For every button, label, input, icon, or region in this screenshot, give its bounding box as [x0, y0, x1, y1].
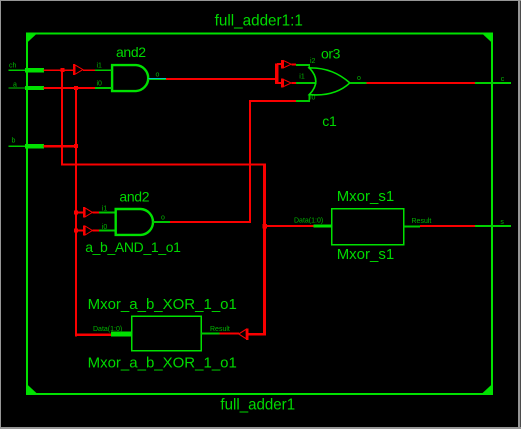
Mxor_s1 Result stub — [404, 226, 421, 228]
junction and2b i1 tap — [74, 210, 78, 214]
svg-text:Data(1:0): Data(1:0) — [93, 326, 122, 333]
and2 gate a_b_AND_1_o1 — [116, 209, 153, 235]
wire vertical from ch down — [61, 69, 63, 165]
svg-text:Mxor_a_b_XOR_1_o1: Mxor_a_b_XOR_1_o1 — [88, 296, 237, 313]
svg-text:i1: i1 — [97, 62, 103, 69]
svg-text:a_b_AND_1_o1: a_b_AND_1_o1 — [85, 239, 181, 255]
svg-text:Result: Result — [210, 326, 230, 333]
border corner TL — [27, 33, 38, 43]
border corner TR — [482, 33, 493, 43]
input pin ch — [9, 68, 45, 72]
svg-text:o: o — [156, 72, 160, 79]
XOR Result stub — [201, 333, 220, 335]
or3 output stub — [350, 82, 367, 84]
wire buffer outs to or3 red — [291, 63, 296, 84]
and2b input wires green — [99, 211, 116, 231]
wire horizontal y335 to XOR Data — [75, 334, 112, 336]
and2 U1 input wires green — [95, 69, 112, 89]
svg-text:Data(1:0): Data(1:0) — [294, 218, 323, 225]
svg-text:o: o — [161, 214, 165, 221]
wire vertical split to or3 i2 i1 — [275, 63, 281, 84]
buffer XOR result (left pointing) — [239, 329, 249, 340]
svg-text:Mxor_s1: Mxor_s1 — [337, 188, 395, 205]
svg-text:i0: i0 — [102, 224, 108, 231]
wire or3 out to pin c — [367, 82, 476, 84]
junction and2b i0 tap — [74, 229, 78, 233]
wire horizontal y164 to Mxor_s1 bus — [61, 164, 266, 166]
Mxor_s1 Data stub — [313, 224, 331, 227]
svg-text:full_adder1:1: full_adder1:1 — [215, 12, 303, 29]
border corner BL — [27, 384, 38, 394]
wire and2 U1 out to or3 — [166, 78, 278, 80]
svg-text:Mxor_a_b_XOR_1_o1: Mxor_a_b_XOR_1_o1 — [88, 355, 237, 372]
wire a stub to and2 — [44, 87, 96, 89]
input pin a — [9, 86, 45, 90]
input pin b — [9, 144, 45, 148]
buffer and2b i1 — [77, 207, 92, 217]
junction a x76 — [74, 86, 78, 90]
svg-text:b: b — [12, 138, 16, 145]
and2 gate U1 — [112, 65, 148, 91]
wire Mxor_s1 Result to pin s — [420, 225, 475, 227]
svg-text:full_adder1: full_adder1 — [220, 396, 295, 413]
Mxor_s1 box — [332, 209, 404, 245]
svg-text:i2: i2 — [310, 58, 316, 65]
svg-text:i1: i1 — [299, 74, 305, 81]
wire buffer to s bus corner — [248, 333, 265, 336]
or3 gate c1 — [309, 68, 350, 95]
wire vertical s bus x264 — [263, 164, 266, 336]
and2 U1 output stub cyan/green — [149, 78, 166, 80]
Mxor_a_b_XOR box — [132, 316, 202, 350]
XOR Data stub — [111, 332, 132, 337]
svg-text:and2: and2 — [119, 188, 149, 204]
wire buffer outs to and2b red — [92, 211, 99, 231]
svg-text:c1: c1 — [322, 113, 337, 129]
bottom label full_adder1 — [220, 396, 295, 413]
svg-text:and2: and2 — [116, 44, 146, 60]
buffer or3 i1 — [281, 79, 291, 88]
wire b stub to bus — [44, 145, 78, 147]
svg-text:ch: ch — [9, 63, 17, 70]
wire XOR Result to buffer — [220, 333, 240, 335]
title full_adder1:1 — [215, 12, 303, 29]
svg-text:Mxor_s1: Mxor_s1 — [337, 246, 395, 263]
wire vertical a b bus x76 — [75, 87, 77, 336]
sheet border full_adder1 — [27, 34, 492, 394]
junction ch x62 — [60, 68, 64, 72]
wire bus to Mxor_s1 Data — [266, 225, 314, 227]
buffer or3 i2 — [281, 60, 291, 69]
junction b x76 — [74, 144, 78, 148]
svg-text:i0: i0 — [97, 81, 103, 88]
wire and2b out to or3 i0 — [170, 100, 296, 223]
output pin c — [475, 82, 511, 84]
buffer and2b i0 — [77, 225, 92, 235]
svg-text:a: a — [13, 82, 17, 89]
svg-text:o: o — [357, 75, 361, 82]
and2b output stub — [152, 221, 170, 223]
svg-text:i1: i1 — [102, 206, 108, 213]
wire ch stub to junction — [44, 69, 96, 71]
svg-text:or3: or3 — [321, 45, 341, 61]
border corner BR — [482, 384, 493, 394]
svg-text:s: s — [500, 219, 504, 226]
buffer on ch wire — [73, 64, 83, 75]
svg-text:c: c — [501, 76, 505, 83]
svg-text:Result: Result — [412, 218, 432, 225]
junction s bus — [262, 224, 266, 228]
output pin s — [475, 225, 511, 227]
or3 input wires green — [296, 64, 317, 102]
